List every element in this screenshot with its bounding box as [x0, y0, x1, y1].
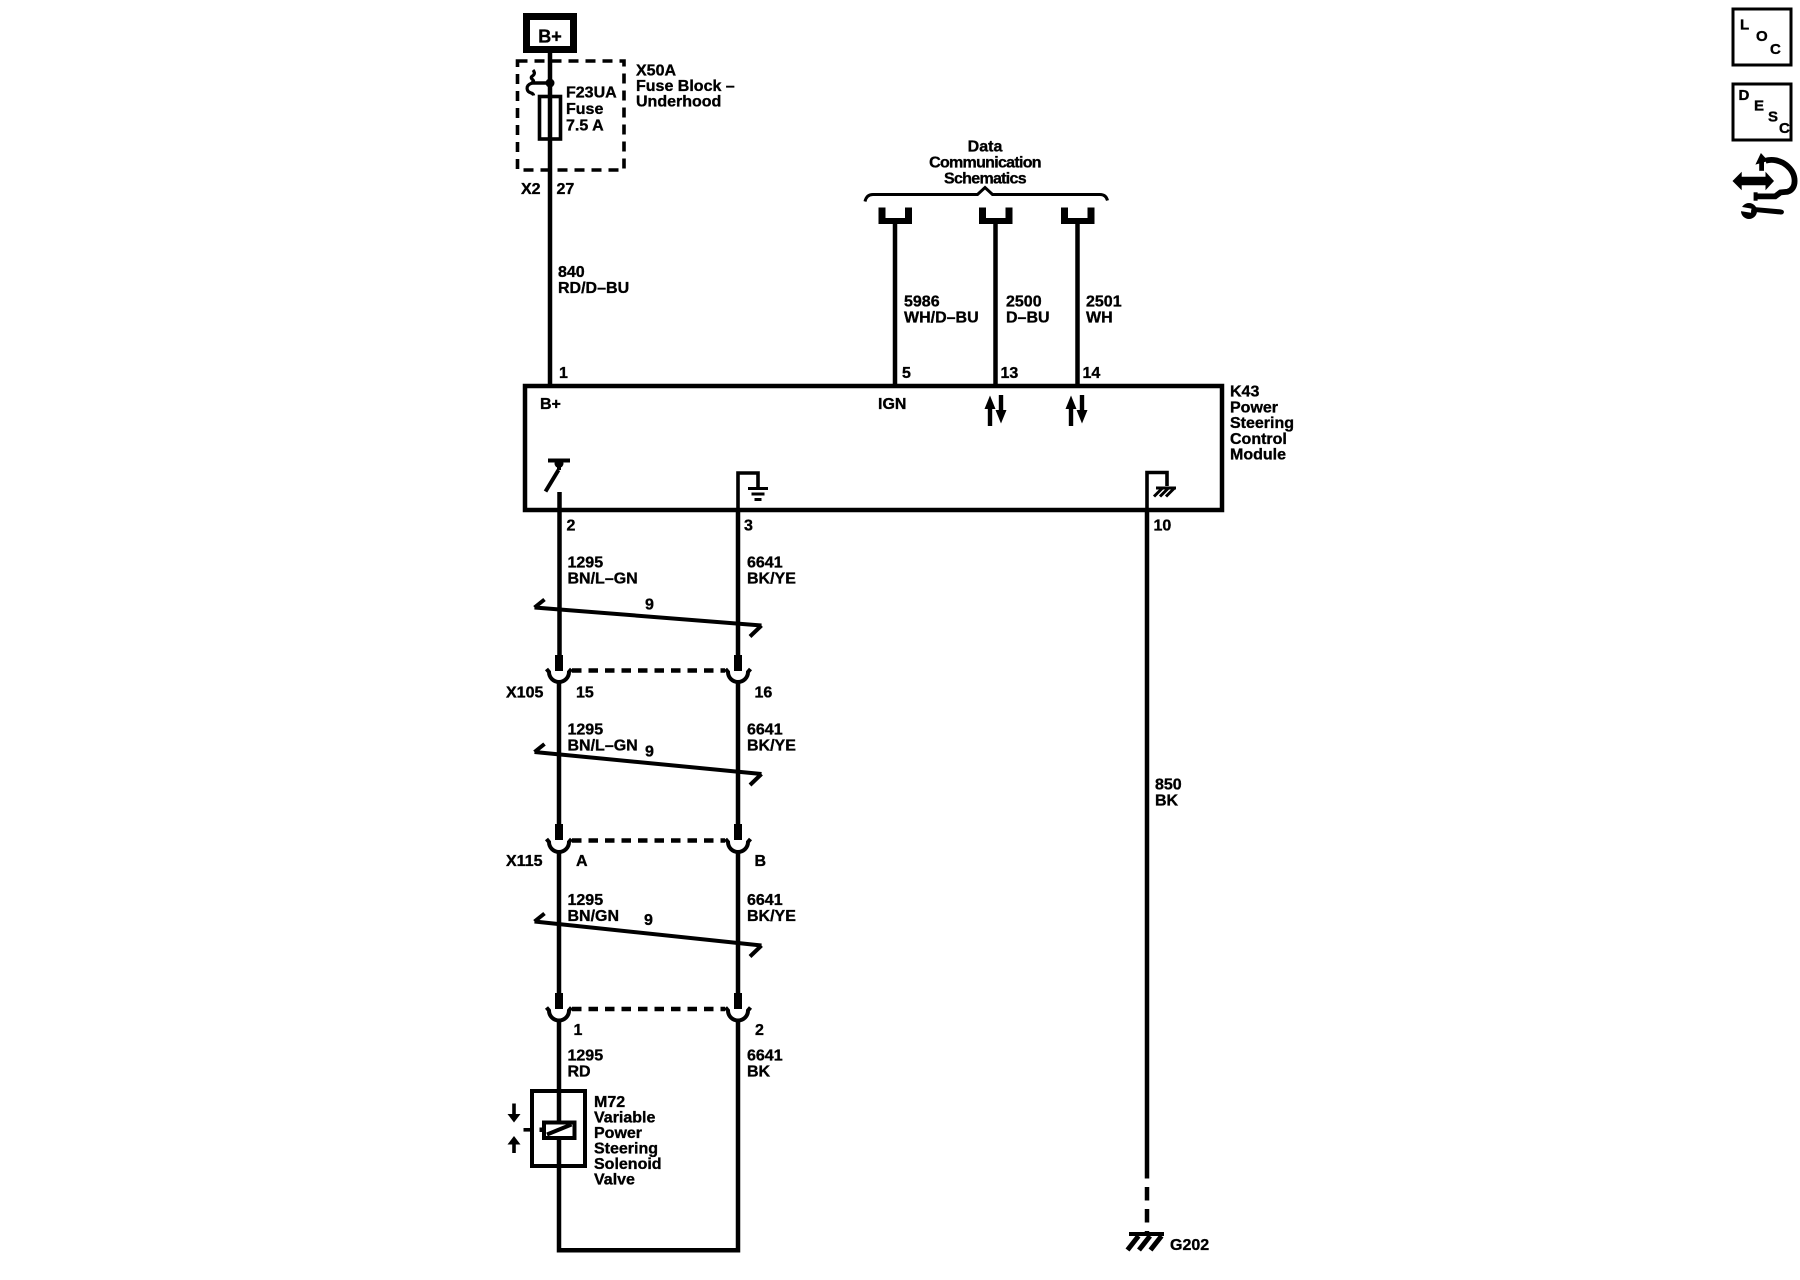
svg-text:5: 5: [902, 365, 911, 382]
svg-text:1295: 1295: [568, 892, 604, 909]
svg-text:Fuse: Fuse: [566, 101, 603, 118]
internal ground bars: [748, 487, 768, 490]
svg-text:A: A: [576, 853, 588, 870]
variable adjust arrow down: [512, 1104, 516, 1115]
svg-text:3: 3: [744, 518, 753, 535]
svg-text:S: S: [1768, 109, 1778, 126]
connector X105 dashed tie: [572, 668, 725, 673]
junction dot: [546, 79, 555, 88]
data arrow pair pin 14 up: [1066, 396, 1077, 427]
svg-text:IGN: IGN: [878, 396, 906, 413]
internal switch contact bar: [548, 459, 570, 463]
svg-text:BK/YE: BK/YE: [747, 908, 796, 925]
wire X115 to inline connector right: [736, 852, 741, 993]
svg-text:F23UA: F23UA: [566, 85, 617, 102]
connector X115 female cups: [547, 839, 572, 852]
svg-text:850: 850: [1155, 777, 1182, 794]
off-page connector wire 2500: [979, 208, 1013, 225]
svg-text:6641: 6641: [747, 1048, 783, 1065]
svg-text:Schematics: Schematics: [944, 171, 1027, 188]
svg-text:1: 1: [559, 365, 568, 382]
wire loop through solenoid valve: [559, 1020, 738, 1250]
SEC-POWER: [518, 17, 735, 387]
off-page connector wire 2501: [1061, 208, 1095, 225]
svg-text:9: 9: [645, 744, 654, 761]
svg-text:13: 13: [1001, 365, 1019, 382]
fuse block X50A dashed outline: [518, 61, 625, 170]
solenoid coil element: [544, 1123, 575, 1139]
svg-text:2501: 2501: [1086, 294, 1122, 311]
wire hook stub: [531, 81, 548, 85]
variable adjust arrow up: [512, 1144, 516, 1153]
routing icon step nub: [1754, 192, 1758, 200]
data arrow pair pin 13 down: [996, 395, 1007, 424]
svg-text:15: 15: [576, 685, 594, 702]
svg-text:7.5 A: 7.5 A: [566, 118, 604, 135]
svg-text:BN/GN: BN/GN: [568, 908, 620, 925]
svg-text:D: D: [1739, 87, 1750, 104]
svg-text:6641: 6641: [747, 722, 783, 739]
routing icon double arrow: [1733, 172, 1775, 191]
inline connector male pins: [555, 993, 563, 1009]
LOC legend box: [1733, 9, 1791, 65]
internal chassis ground bar: [1156, 487, 1176, 490]
svg-text:2: 2: [755, 1022, 764, 1039]
svg-text:B: B: [755, 853, 767, 870]
wire pin 3 to X105: [736, 508, 741, 655]
twisted pair symbol section 2: [535, 752, 762, 774]
svg-text:BK: BK: [747, 1064, 771, 1081]
data arrow pair pin 14 down: [1077, 395, 1088, 424]
svg-text:Data: Data: [968, 139, 1003, 156]
bus bar hook: [527, 70, 534, 96]
internal chassis ground hatches: [1154, 489, 1162, 497]
SEC-LEFTCOLS: [506, 492, 796, 1081]
svg-text:Solenoid: Solenoid: [594, 1156, 662, 1173]
svg-text:9: 9: [644, 912, 653, 929]
svg-text:RD/D–BU: RD/D–BU: [558, 280, 629, 297]
ground G202 hatches: [1128, 1236, 1139, 1250]
wire pin 2 to X105: [557, 492, 562, 655]
svg-text:2500: 2500: [1006, 294, 1042, 311]
svg-text:BN/L–GN: BN/L–GN: [568, 571, 638, 588]
svg-text:BK/YE: BK/YE: [747, 738, 796, 755]
svg-text:Power: Power: [1230, 399, 1278, 416]
svg-text:1295: 1295: [568, 1048, 604, 1065]
B+ power terminal: [527, 17, 574, 50]
internal switch blade: [546, 470, 559, 492]
svg-text:Power: Power: [594, 1125, 642, 1142]
svg-text:Steering: Steering: [1230, 415, 1294, 432]
svg-text:G202: G202: [1170, 1237, 1209, 1254]
svg-text:X105: X105: [506, 685, 543, 702]
svg-text:L: L: [1740, 17, 1749, 34]
wrench notch: [1738, 206, 1752, 213]
svg-text:27: 27: [557, 181, 575, 198]
wire 850 BK: [1145, 508, 1150, 1165]
wire B+ feed to module pin 1: [548, 53, 553, 386]
svg-text:C: C: [1779, 120, 1790, 137]
wire X115 to inline connector left: [557, 852, 562, 993]
svg-text:Variable: Variable: [594, 1110, 655, 1127]
routing icon curve arrow: [1756, 160, 1795, 197]
svg-text:X115: X115: [506, 853, 543, 870]
svg-text:E: E: [1754, 98, 1764, 115]
wire 2500: [993, 224, 998, 386]
svg-text:WH/D–BU: WH/D–BU: [904, 310, 979, 327]
wire X105 to X115 left: [557, 682, 562, 824]
SEC-DATACOMM: [865, 139, 1122, 387]
DESC legend box: [1733, 84, 1791, 140]
connector X115 dashed tie: [572, 838, 725, 843]
svg-text:10: 10: [1154, 518, 1172, 535]
svg-text:1: 1: [574, 1022, 583, 1039]
svg-text:RD: RD: [568, 1064, 591, 1081]
brace: [865, 188, 1108, 202]
connector X105 male pins: [555, 655, 563, 671]
svg-text:B+: B+: [538, 27, 562, 47]
svg-text:6641: 6641: [747, 555, 783, 572]
svg-text:O: O: [1756, 28, 1768, 45]
svg-text:C: C: [1770, 41, 1781, 58]
wrench head: [1741, 203, 1757, 219]
wrench handle: [1751, 207, 1784, 215]
svg-text:X50A: X50A: [636, 63, 676, 80]
SEC-GROUND: [1128, 508, 1210, 1254]
svg-text:B+: B+: [540, 396, 561, 413]
svg-text:Fuse Block –: Fuse Block –: [636, 78, 735, 95]
off-page connector wire 5986: [879, 208, 913, 225]
svg-text:5986: 5986: [904, 294, 940, 311]
internal ground pin 3 riser: [738, 473, 758, 508]
internal switch stub: [557, 464, 561, 471]
connector X105 female cups: [547, 669, 572, 682]
wire 5986: [893, 224, 898, 386]
svg-text:D–BU: D–BU: [1006, 310, 1050, 327]
svg-text:2: 2: [567, 518, 576, 535]
svg-text:BK: BK: [1155, 793, 1179, 810]
data arrow pair pin 13 up: [985, 396, 996, 427]
SEC-ICONS: [1733, 9, 1795, 219]
fuse F23UA: [540, 97, 561, 140]
svg-text:1295: 1295: [568, 722, 604, 739]
svg-text:14: 14: [1083, 365, 1101, 382]
solenoid valve M72 box: [532, 1091, 585, 1166]
internal chassis ground pin 10 riser: [1147, 473, 1167, 509]
wire X105 to X115 right: [736, 682, 741, 824]
svg-text:BK/YE: BK/YE: [747, 571, 796, 588]
SEC-MODULE: [525, 384, 1294, 535]
svg-text:Communication: Communication: [929, 155, 1041, 172]
variable adjust tick: [524, 1128, 534, 1132]
svg-text:16: 16: [755, 685, 773, 702]
wire 850 BK dashed tail: [1145, 1165, 1150, 1233]
internal switch pivot dot: [555, 459, 564, 468]
connector X115 male pins: [555, 824, 563, 840]
K43 power steering control module box: [525, 386, 1222, 510]
twisted pair symbol section 3: [535, 922, 762, 946]
svg-text:BN/L–GN: BN/L–GN: [568, 738, 638, 755]
svg-text:K43: K43: [1230, 384, 1259, 401]
twisted pair symbol section 1: [535, 608, 762, 626]
svg-text:Steering: Steering: [594, 1141, 658, 1158]
inline connector female cups: [547, 1008, 572, 1021]
svg-text:Control: Control: [1230, 431, 1287, 448]
svg-text:6641: 6641: [747, 892, 783, 909]
svg-text:Valve: Valve: [594, 1172, 635, 1189]
svg-text:M72: M72: [594, 1094, 625, 1111]
svg-text:Underhood: Underhood: [636, 94, 721, 111]
svg-text:WH: WH: [1086, 310, 1113, 327]
SEC-M72: [508, 1020, 739, 1250]
inline connector dashed tie: [572, 1007, 725, 1012]
wire 2501: [1075, 224, 1080, 386]
svg-text:840: 840: [558, 264, 585, 281]
ground G202 bar: [1129, 1232, 1164, 1236]
svg-text:Module: Module: [1230, 447, 1286, 464]
svg-text:X2: X2: [521, 181, 541, 198]
svg-text:9: 9: [645, 597, 654, 614]
svg-text:1295: 1295: [568, 555, 604, 572]
